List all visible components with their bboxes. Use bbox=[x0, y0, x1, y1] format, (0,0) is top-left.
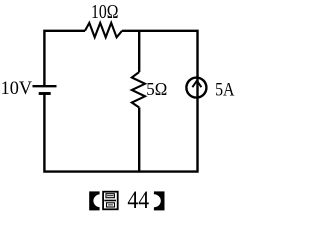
wire middle branch top bbox=[138, 31, 140, 72]
battery V1 long plate bbox=[33, 85, 57, 87]
svg-text:5A: 5A bbox=[215, 80, 235, 101]
svg-text:44: 44 bbox=[127, 186, 149, 214]
current source I1 circle bbox=[186, 78, 206, 98]
svg-text:10V: 10V bbox=[1, 78, 33, 99]
svg-text:5Ω: 5Ω bbox=[146, 79, 167, 99]
wire left-lower, bottom, right vertical and top-right segment bbox=[44, 31, 197, 172]
caption opening bracket bbox=[89, 191, 107, 210]
caption closing bracket bbox=[147, 191, 165, 210]
caption CJK glyph tu (figure) bbox=[103, 192, 118, 210]
svg-text:10Ω: 10Ω bbox=[91, 2, 118, 23]
resistor R2 5ohm zigzag bbox=[132, 72, 145, 108]
resistor R1 10ohm zigzag bbox=[85, 23, 122, 37]
battery V1 short plate bbox=[39, 92, 51, 95]
wire top-left segment and left vertical down to battery bbox=[44, 31, 85, 85]
current source I1 arrowhead bbox=[192, 81, 201, 88]
wire middle branch bottom bbox=[138, 108, 140, 172]
